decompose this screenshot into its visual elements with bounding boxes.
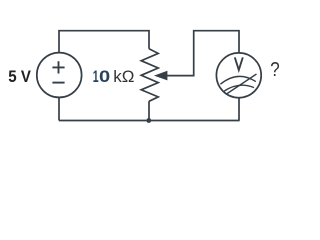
- potentiometer wiper arrowhead: [154, 71, 167, 81]
- node junction dot: [146, 118, 151, 123]
- wire wiper to voltmeter top: [167, 31, 240, 76]
- wire bottom rail: [59, 120, 240, 122]
- voltmeter letter V: [235, 57, 243, 70]
- voltmeter needle: [227, 74, 257, 94]
- potentiometer R1 zigzag: [141, 49, 158, 102]
- svg-text:5 V: 5 V: [8, 67, 31, 86]
- voltmeter scale lower arc: [224, 85, 254, 91]
- svg-text:0: 0: [99, 66, 110, 85]
- wire source bottom lead: [58, 97, 60, 120]
- voltage source plus sign: [52, 61, 64, 73]
- wire top-left rail: [59, 31, 149, 53]
- svg-text:kΩ: kΩ: [113, 67, 134, 86]
- voltage source minus sign: [52, 82, 64, 84]
- voltage source circle: [37, 53, 82, 98]
- wire resistor bottom lead: [148, 101, 150, 120]
- voltmeter circle: [216, 53, 261, 98]
- wire voltmeter bottom lead: [238, 98, 240, 121]
- voltmeter scale upper arc: [220, 76, 255, 84]
- svg-text:?: ?: [270, 58, 279, 81]
- svg-text:1: 1: [93, 66, 99, 85]
